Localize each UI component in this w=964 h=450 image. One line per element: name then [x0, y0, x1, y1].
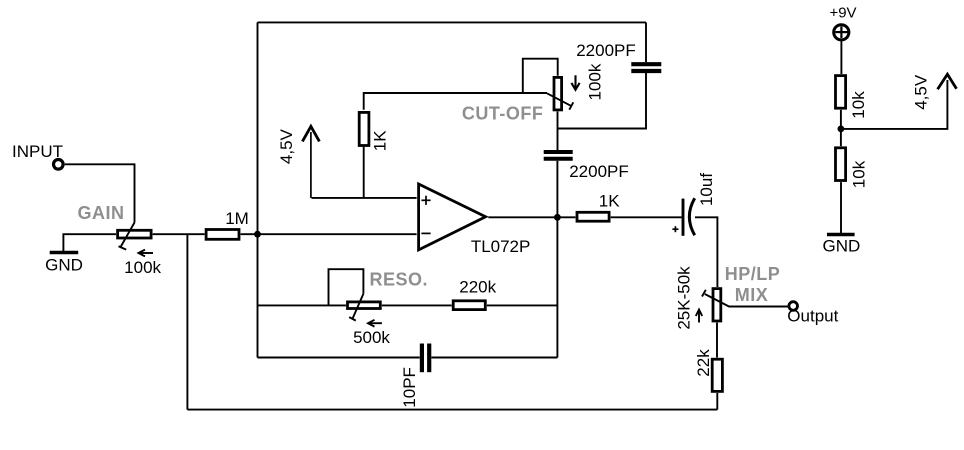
- capacitor C 2200PF middle: [544, 152, 573, 159]
- wire feedback top horizontal: [258, 21, 647, 23]
- resistor R 1M: [206, 230, 239, 240]
- wire divider middle: [840, 110, 842, 146]
- svg-text:GAIN: GAIN: [78, 203, 125, 223]
- wire opamp output: [488, 216, 575, 218]
- svg-text:10k: 10k: [849, 160, 868, 188]
- resistor R 1K vertical: [359, 112, 369, 145]
- svg-text:GND: GND: [45, 256, 83, 275]
- potentiometer CUT-OFF wiper arm: [547, 93, 571, 105]
- node INPUT terminal: [54, 160, 64, 170]
- wire junction down: [186, 234, 188, 409]
- svg-text:1K: 1K: [599, 191, 620, 210]
- wire reso left: [258, 304, 346, 306]
- wire cap to hp/lp pot: [695, 217, 717, 287]
- potentiometer R RESO 500k body: [348, 302, 381, 309]
- potentiometer R HP/LP body: [713, 289, 721, 321]
- svg-text:GND: GND: [823, 237, 861, 256]
- svg-text:10k: 10k: [849, 91, 868, 119]
- svg-text:TL072P: TL072P: [471, 237, 531, 256]
- svg-text:MIX: MIX: [735, 285, 769, 305]
- arrow annotation 100k: [139, 250, 154, 257]
- wire feedback right vertical upper: [645, 22, 647, 62]
- capacitor C 10PF: [422, 344, 429, 373]
- potentiometer CUT-OFF wiper tick: [569, 102, 573, 109]
- wire output node down: [556, 217, 558, 357]
- wire reso pot to 220k: [382, 304, 452, 306]
- wire 220k to right vertical: [487, 304, 558, 306]
- power arrow 4,5V right: [938, 74, 957, 89]
- wire reso wiper loop: [329, 269, 364, 305]
- wire pot to 1M: [153, 233, 205, 235]
- wire 22k to bottom rail: [716, 393, 718, 410]
- wire feedback left vertical: [257, 22, 259, 357]
- ground GND left: [50, 251, 78, 254]
- wire 1K to cap 10uf: [611, 216, 682, 218]
- wire 10k to gnd: [840, 182, 842, 233]
- wire cutoff top loop: [523, 59, 558, 93]
- power arrow 4,5V left: [310, 132, 312, 198]
- svg-text:100k: 100k: [586, 63, 605, 100]
- svg-text:100k: 100k: [124, 258, 161, 277]
- resistor R 1K output: [577, 212, 609, 221]
- potentiometer R CUT-OFF 100k body: [554, 77, 562, 110]
- capacitor C 2200PF top: [631, 64, 661, 71]
- resistor R 10k upper: [836, 76, 846, 109]
- wire cap2 to output node: [556, 161, 558, 218]
- resistor R 220k: [453, 301, 485, 310]
- arrow annotation hp/lp: [696, 310, 702, 323]
- capacitor C 10uf straight plate: [682, 199, 685, 236]
- svg-text:10uf: 10uf: [697, 173, 716, 206]
- potentiometer GAIN wiper tick: [119, 246, 127, 249]
- svg-text:HP/LP: HP/LP: [725, 264, 781, 284]
- potentiometer RESO wiper arm: [353, 294, 364, 319]
- wire box bottom right segment: [431, 357, 557, 359]
- svg-text:10PF: 10PF: [400, 367, 419, 408]
- arrow annotation 500k: [368, 320, 382, 327]
- capacitor 10uf plus mark: [672, 226, 678, 232]
- resistor R 10k lower: [836, 148, 846, 181]
- potentiometer HP/LP wiper arm: [705, 294, 789, 307]
- wire bottom rail: [187, 409, 717, 411]
- wire input to gain wiper: [65, 164, 135, 222]
- svg-text:4,5V: 4,5V: [277, 128, 296, 164]
- svg-text:RESO.: RESO.: [370, 270, 429, 290]
- svg-text:2200PF: 2200PF: [569, 162, 629, 181]
- wire 9V to 10k: [840, 41, 842, 74]
- arrow annotation cutoff: [571, 75, 579, 90]
- svg-text:+9V: +9V: [829, 5, 856, 22]
- wire 1M to opamp inverting input: [241, 233, 417, 235]
- wire plus input: [312, 197, 417, 199]
- wire node to 4,5V arrow: [841, 80, 948, 129]
- svg-text:22k: 22k: [694, 349, 713, 377]
- wire cutoff bottom to cap2: [557, 112, 559, 151]
- wire hp/lp pot to 22k: [716, 323, 718, 358]
- svg-text:4,5V: 4,5V: [912, 74, 931, 110]
- svg-text:1M: 1M: [225, 209, 249, 228]
- node output dot: [554, 214, 561, 221]
- node Output terminal: [789, 302, 798, 311]
- power +9V plus mark: [835, 27, 847, 39]
- svg-text:220k: 220k: [459, 278, 496, 297]
- resistor R 22k: [712, 359, 722, 391]
- svg-text:Output: Output: [787, 307, 838, 326]
- potentiometer GAIN wiper arm: [120, 223, 134, 248]
- op-amp minus mark: [421, 232, 430, 234]
- wire 1K bottom to plus input: [363, 146, 365, 198]
- node divider dot: [838, 125, 845, 132]
- power +9V terminal: [834, 25, 849, 40]
- node junction dot: [254, 231, 261, 238]
- svg-text:2200PF: 2200PF: [576, 41, 636, 60]
- ground GND right: [827, 233, 855, 236]
- svg-text:1K: 1K: [371, 130, 390, 151]
- svg-text:INPUT: INPUT: [12, 142, 63, 161]
- svg-text:25K-50k: 25K-50k: [675, 266, 694, 330]
- potentiometer R GAIN 100k body: [118, 230, 152, 238]
- svg-text:CUT-OFF: CUT-OFF: [462, 104, 544, 124]
- wire gnd to pot: [63, 234, 116, 251]
- wire box bottom left segment: [258, 357, 420, 359]
- op-amp U TL072P: [419, 184, 486, 250]
- wire 1K top to cutoff wiper: [364, 93, 547, 110]
- wire cap to cutoff bottom: [557, 73, 646, 129]
- potentiometer RESO wiper tick: [349, 317, 356, 321]
- svg-text:500k: 500k: [353, 328, 390, 347]
- capacitor C 10uf curved plate: [689, 198, 694, 235]
- potentiometer HP/LP wiper tick: [702, 290, 706, 297]
- op-amp plus mark: [421, 196, 430, 205]
